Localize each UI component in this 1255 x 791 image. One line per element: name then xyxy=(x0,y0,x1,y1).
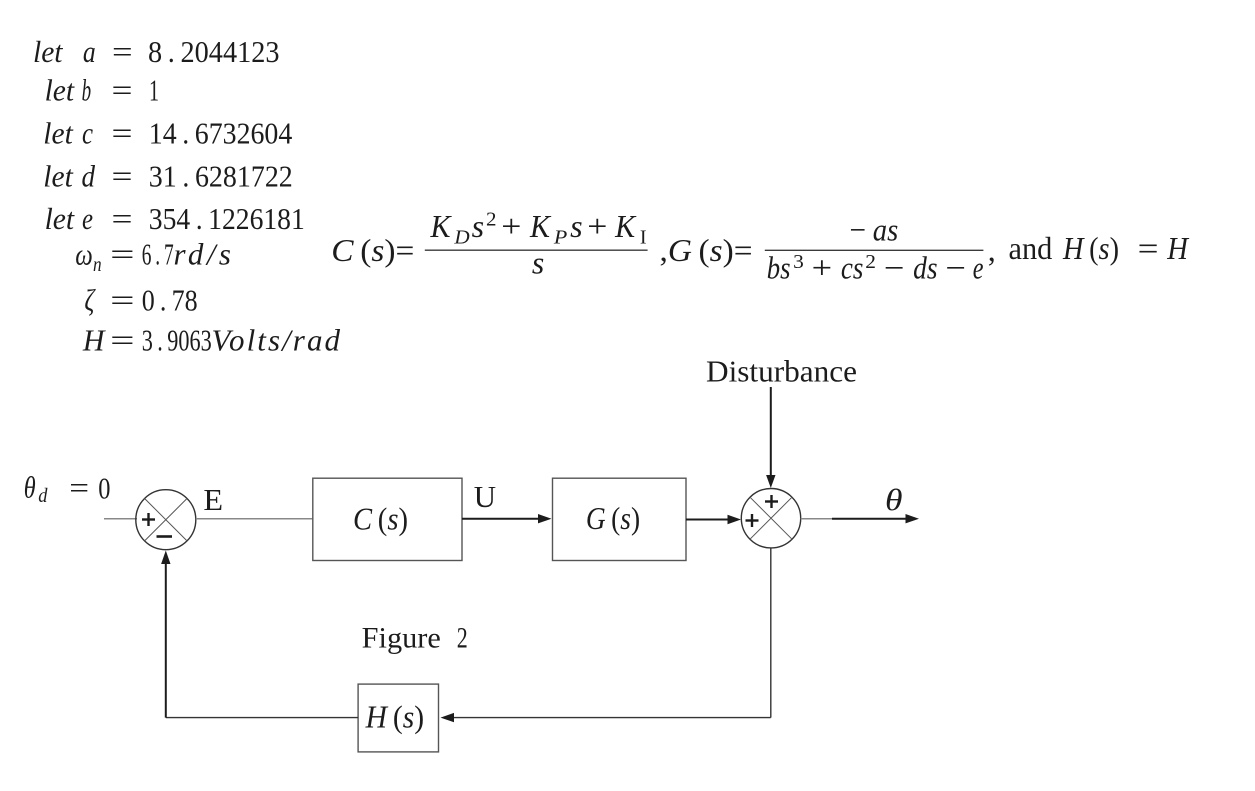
svg-text:−: − xyxy=(850,212,867,248)
svg-text:2: 2 xyxy=(457,622,468,655)
svg-text:ζ: ζ xyxy=(84,282,96,317)
equation: C(s) = (K_D s^2 + K_P s + K_I)/s xyxy=(331,208,647,280)
svg-text:6 . 7: 6 . 7 xyxy=(142,237,174,272)
svg-text:354 . 1226181: 354 . 1226181 xyxy=(149,201,305,236)
svg-text:E: E xyxy=(203,482,223,517)
svg-text:8 . 2044123: 8 . 2044123 xyxy=(148,34,280,69)
svg-text:D: D xyxy=(453,227,470,249)
minus sign in S1 xyxy=(157,535,173,538)
svg-text:=: = xyxy=(112,72,133,107)
plus sign top in S2 xyxy=(765,495,778,508)
svg-text:ds: ds xyxy=(913,250,937,286)
plus sign in S1 xyxy=(142,513,155,526)
wire/arrow Disturbance into S2 xyxy=(766,387,775,488)
text: H = 3.9063 Volts/rad xyxy=(82,323,341,358)
text: Figure 2 xyxy=(362,622,468,655)
svg-text:b: b xyxy=(82,72,92,107)
svg-text:=: = xyxy=(112,34,133,69)
svg-text:K: K xyxy=(529,208,551,244)
svg-text:−: − xyxy=(884,250,905,286)
svg-text:+: + xyxy=(812,250,833,286)
svg-text:C (s)=: C (s)= xyxy=(331,232,414,268)
svg-text:3 . 9063: 3 . 9063 xyxy=(142,323,212,358)
svg-text:=: = xyxy=(112,201,133,236)
wire/arrow feedback up into S1 xyxy=(161,551,170,718)
svg-text:let: let xyxy=(33,34,64,69)
block H(s) xyxy=(358,684,438,752)
svg-text:H (s): H (s) xyxy=(365,698,424,734)
svg-text:,G (s)=: ,G (s)= xyxy=(660,232,753,268)
summing junction S2 xyxy=(741,489,800,548)
svg-text:G (s): G (s) xyxy=(586,500,640,536)
text: let d = 31.6281722 xyxy=(43,159,292,194)
svg-text:K: K xyxy=(614,208,636,244)
text: let c = 14.6732604 xyxy=(43,116,292,151)
svg-text:,: , xyxy=(988,232,996,268)
svg-text:d: d xyxy=(38,485,48,507)
wire/arrow G(s) to summing junction S2 xyxy=(686,515,741,524)
svg-text:3: 3 xyxy=(793,251,804,273)
svg-text:H: H xyxy=(82,323,106,358)
svg-text:=: = xyxy=(110,237,134,272)
svg-text:=: = xyxy=(110,323,134,358)
arrow to output theta xyxy=(832,514,919,523)
svg-text:let: let xyxy=(43,116,74,151)
svg-text:θ: θ xyxy=(885,482,903,517)
text: zeta = 0.78 xyxy=(84,282,197,317)
svg-text:a: a xyxy=(83,34,96,69)
svg-text:as: as xyxy=(873,212,899,248)
summing junction S1 xyxy=(136,490,196,550)
svg-text:2: 2 xyxy=(486,209,497,231)
svg-text:0: 0 xyxy=(98,470,110,505)
wire/arrow feedback into H(s) xyxy=(441,713,771,722)
svg-text:Disturbance: Disturbance xyxy=(706,354,857,389)
text: let a = 8.2044123 xyxy=(33,34,280,69)
svg-text:cs: cs xyxy=(841,250,864,286)
svg-text:Volts/rad: Volts/rad xyxy=(212,323,341,358)
svg-text:let: let xyxy=(45,201,76,236)
svg-text:=: = xyxy=(69,470,89,505)
text: omega_n = 6.7 rd/s xyxy=(75,237,231,277)
svg-text:0 . 78: 0 . 78 xyxy=(142,282,198,317)
svg-text:2: 2 xyxy=(865,251,876,273)
node theta_d input label xyxy=(24,470,111,508)
svg-text:1: 1 xyxy=(149,72,159,107)
svg-text:let: let xyxy=(45,72,76,107)
svg-text:14 . 6732604: 14 . 6732604 xyxy=(149,116,293,151)
block C(s) xyxy=(313,478,462,560)
svg-text:s: s xyxy=(472,208,485,244)
svg-text:+: + xyxy=(587,208,607,244)
svg-text:s: s xyxy=(532,244,544,280)
block G(s) xyxy=(553,478,687,560)
svg-text:−: − xyxy=(945,250,966,286)
wire H(s) to left feedback xyxy=(166,717,358,719)
svg-text:bs: bs xyxy=(767,250,791,286)
svg-text:=: = xyxy=(112,116,133,151)
plus sign left in S2 xyxy=(746,514,759,527)
svg-text:s: s xyxy=(570,208,583,244)
svg-text:=: = xyxy=(112,159,133,194)
svg-text:P: P xyxy=(553,227,567,249)
svg-text:U: U xyxy=(474,479,496,514)
wire input to summing junction S1 xyxy=(104,518,137,520)
svg-text:n: n xyxy=(93,254,102,276)
svg-text:=: = xyxy=(1138,230,1159,266)
svg-text:Figure: Figure xyxy=(362,622,441,655)
svg-text:θ: θ xyxy=(24,470,36,505)
text: let e = 354.1226181 xyxy=(45,201,305,236)
svg-text:K: K xyxy=(430,208,452,244)
svg-text:d: d xyxy=(82,159,96,194)
svg-text:and: and xyxy=(1009,230,1053,266)
svg-text:ω: ω xyxy=(75,237,93,272)
wire S2 to output xyxy=(801,518,845,520)
equation: , G(s) = -as/(bs^3+cs^2-ds-e) xyxy=(660,212,984,286)
wire S2 down to feedback xyxy=(770,548,772,718)
svg-text:e: e xyxy=(82,201,93,236)
svg-text:H (s): H (s) xyxy=(1062,230,1119,266)
wire/arrow C(s) to G(s) xyxy=(462,514,552,523)
svg-text:C (s): C (s) xyxy=(353,501,408,537)
svg-text:H: H xyxy=(1166,230,1189,266)
svg-text:31 . 6281722: 31 . 6281722 xyxy=(149,159,293,194)
svg-text:rd/s: rd/s xyxy=(174,237,232,272)
svg-text:let: let xyxy=(43,159,74,194)
svg-text:c: c xyxy=(82,116,93,151)
svg-text:=: = xyxy=(110,282,134,317)
svg-text:+: + xyxy=(501,208,521,244)
text: let b = 1 xyxy=(45,72,159,107)
svg-text:I: I xyxy=(640,227,647,249)
equation: , and H(s) = H xyxy=(988,230,1190,268)
wire S1 to C(s) xyxy=(196,518,313,520)
svg-text:e: e xyxy=(973,250,984,286)
